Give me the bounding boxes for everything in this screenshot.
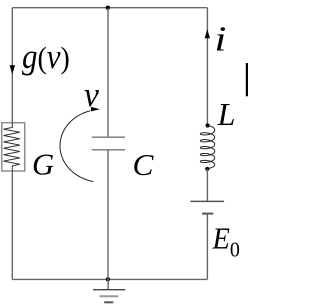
cropped bracket artifact right edge (246, 63, 248, 96)
wire left vertical lower (11, 171, 13, 279)
resistor G zigzag (4, 123, 20, 171)
capacitor C top plate (92, 136, 125, 138)
wire top horizontal (12, 7, 207, 9)
svg-text:C: C (132, 147, 154, 182)
label i (214, 20, 226, 58)
arrow current i up (205, 29, 210, 38)
label L (217, 97, 236, 132)
inductor L top terminal dot (206, 123, 210, 127)
arrowhead of voltage arc (91, 107, 100, 112)
ground stub wire (107, 279, 109, 289)
inductor L coil (200, 126, 214, 169)
wire middle vertical lower (107, 150, 109, 280)
resistor G box (2, 123, 25, 171)
inductor L bottom terminal dot (205, 167, 209, 171)
svg-text:g(v): g(v) (22, 38, 70, 76)
capacitor C bottom plate (92, 149, 125, 151)
voltage arc v (60, 111, 93, 182)
wire left vertical upper (11, 8, 13, 123)
ground bar 3 (104, 301, 113, 303)
ground bar 1 (93, 289, 125, 291)
label C (132, 147, 154, 182)
ground bar 2 (100, 295, 119, 297)
svg-text:i: i (214, 20, 226, 58)
node bottom junction dot (106, 277, 110, 281)
wire right vertical upper (206, 8, 208, 126)
label G (32, 147, 54, 181)
label g(v) (22, 38, 70, 76)
battery E0 positive plate (long) (190, 200, 224, 202)
node top junction dot (106, 6, 110, 10)
arrow current direction down (g branch) (10, 65, 15, 74)
label E0 (212, 223, 240, 262)
wire bottom horizontal (12, 278, 207, 280)
svg-text:v: v (84, 75, 100, 114)
wire middle vertical upper (107, 8, 109, 137)
svg-text:G: G (32, 147, 54, 181)
wire battery to bottom (206, 214, 208, 280)
svg-text:L: L (217, 97, 236, 132)
battery E0 negative plate (short) (202, 213, 213, 215)
label v (84, 75, 100, 114)
svg-text:E0: E0 (212, 223, 240, 262)
wire inductor to battery (206, 169, 208, 201)
